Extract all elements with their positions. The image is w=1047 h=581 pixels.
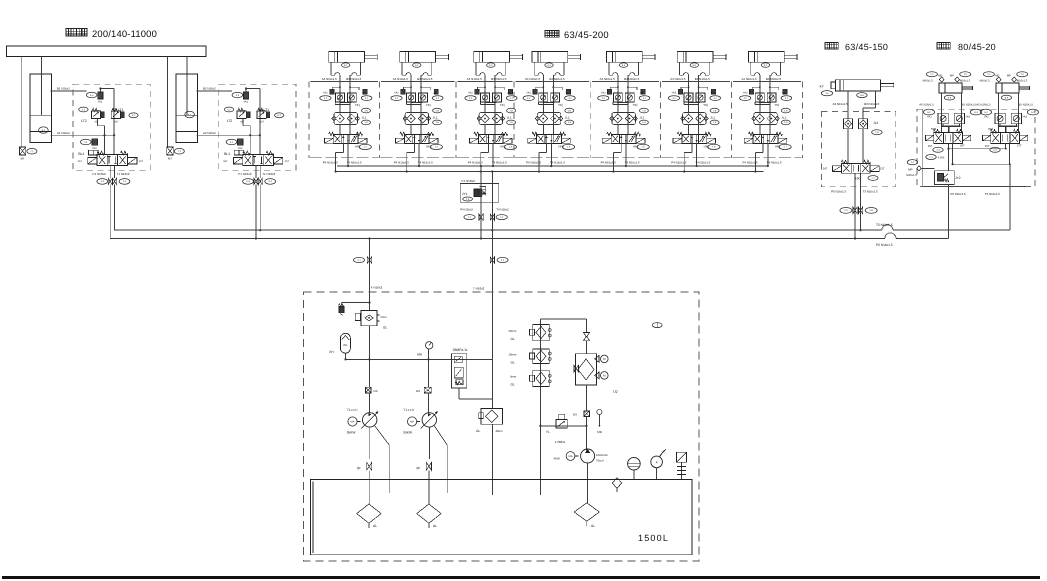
- svg-text:A3 N16x1.5: A3 N16x1.5: [833, 102, 848, 106]
- pilot check cartridges unit 7: [755, 93, 776, 105]
- svg-text:63/45-150: 63/45-150: [845, 42, 888, 52]
- svg-text:GL: GL: [383, 326, 387, 330]
- wire P4/T4 drops unit 5: [601, 143, 640, 173]
- svg-text:T4 N16x1.5: T4 N16x1.5: [625, 160, 640, 164]
- svg-text:P5 N16x1.5: P5 N16x1.5: [876, 243, 893, 247]
- cylinder YS1: [22, 56, 52, 146]
- thermometer: [651, 450, 666, 480]
- svg-text:T4 N16x1.5: T4 N16x1.5: [767, 160, 782, 164]
- throttle check JL1 unit 7: [752, 113, 791, 135]
- slope tag 4.5%: [926, 155, 945, 160]
- svg-text:YK|: YK|: [500, 103, 505, 107]
- svg-text:MP: MP: [908, 168, 913, 172]
- wire P4 manifold: [337, 165, 769, 167]
- pilot check cartridges unit 3: [480, 93, 501, 105]
- svg-text:4KW: 4KW: [553, 457, 560, 461]
- svg-text:B4 N10x1.5: B4 N10x1.5: [695, 77, 710, 81]
- svg-text:JL1: JL1: [710, 115, 715, 119]
- pilot check cartridges unit 4: [539, 93, 560, 105]
- svg-text:A4 N10x1.5: A4 N10x1.5: [393, 77, 408, 81]
- svg-text:QF: QF: [416, 466, 420, 470]
- cylinder KY 63/45-150: [820, 80, 894, 96]
- border rule: [2, 576, 1040, 579]
- svg-text:B3 N16x1.5: B3 N16x1.5: [864, 102, 879, 106]
- lock1 couplers MD/MP: [923, 72, 971, 83]
- cylinder YS2: [167, 56, 197, 146]
- wire A4/B4 unit 7: [740, 75, 792, 134]
- svg-text:YA3: YA3: [1022, 116, 1027, 119]
- coupler MP: [906, 160, 934, 178]
- svg-text:T4 N16x2: T4 N16x2: [496, 207, 509, 211]
- labels lock section P5 T5: [950, 192, 1000, 196]
- svg-text:M16x1.5: M16x1.5: [980, 79, 991, 82]
- svg-text:T5 N16x1.5: T5 N16x1.5: [985, 192, 1000, 196]
- wire F inside: [368, 302, 370, 311]
- throttle check JL1 unit 4: [535, 113, 574, 135]
- svg-text:A5 N16x1.5: A5 N16x1.5: [976, 103, 991, 107]
- svg-text:26T: 26T: [985, 145, 990, 148]
- shutoff valves 63/45-150: [840, 207, 877, 214]
- wire P1 drop: [109, 185, 111, 239]
- svg-text:YK|: YK|: [703, 103, 708, 107]
- pressure switch YK unit 6: [703, 103, 719, 113]
- svg-text:YA2: YA2: [468, 91, 473, 94]
- lock2 cylinder 80/45: [976, 83, 1033, 107]
- svg-text:YA1: YA1: [507, 92, 512, 95]
- label P4 manifold: [462, 179, 476, 183]
- L2 valve BL1: [224, 150, 244, 155]
- throttle check JL1 unit 2: [403, 113, 442, 135]
- cylinder YG1: [329, 52, 378, 68]
- svg-text:YA1: YA1: [711, 92, 716, 95]
- svg-text:4: 4: [656, 461, 658, 465]
- accumulator XH 20L: [329, 333, 350, 360]
- svg-text:P4 N16x1.5: P4 N16x1.5: [394, 160, 409, 164]
- svg-text:YA2: YA2: [92, 147, 97, 150]
- svg-text:T4 N16x1.5: T4 N16x1.5: [695, 160, 710, 164]
- svg-text:27T: 27T: [1017, 145, 1022, 148]
- svg-text:YA1: YA1: [362, 92, 367, 95]
- title jack cylinder 63/45-150: [825, 42, 888, 52]
- wire F filter to header: [368, 326, 370, 360]
- svg-text:BL1: BL1: [224, 152, 230, 156]
- svg-text:JL1: JL1: [433, 115, 438, 119]
- svg-text:P4 N16x1.5: P4 N16x1.5: [323, 160, 338, 164]
- wire P4/T4 drops unit 6: [671, 143, 710, 173]
- svg-text:P4 N16x2: P4 N16x2: [462, 179, 476, 183]
- svg-text:T4 N16x1.5: T4 N16x1.5: [550, 160, 565, 164]
- svg-text:M16x1.5: M16x1.5: [923, 79, 934, 82]
- svg-text:A4 N10x1.5: A4 N10x1.5: [467, 77, 482, 81]
- directional valve HF1 unit 6: [673, 132, 720, 149]
- svg-text:M16x1.5: M16x1.5: [1017, 79, 1028, 82]
- ball valve QF1: [357, 462, 372, 504]
- wire P4/T4 drops unit 7: [743, 143, 782, 173]
- pilot check cartridges unit 6: [684, 93, 705, 105]
- svg-text:LT1: LT1: [118, 108, 124, 112]
- svg-text:B2 N16x2: B2 N16x2: [203, 87, 216, 91]
- block JY1: [460, 184, 499, 203]
- oval tag cylinder YS2: [185, 111, 195, 117]
- lock1 cylinder 80/45: [919, 83, 976, 107]
- svg-text:YK|: YK|: [633, 103, 638, 107]
- svg-text:YA1: YA1: [243, 100, 248, 103]
- label A4/B4 unit 2: [393, 77, 433, 81]
- wire P5 bus: [110, 184, 949, 238]
- wire circulation bottom run: [539, 416, 600, 450]
- suction line pump 1: [369, 427, 371, 459]
- circulation filter 20mm: [509, 324, 552, 340]
- L1 shutoff valves P/T: [97, 166, 130, 185]
- svg-text:71cc/r: 71cc/r: [347, 408, 359, 412]
- svg-text:GL: GL: [433, 524, 437, 528]
- wire P2 drop: [255, 185, 257, 240]
- svg-text:80/45-20: 80/45-20: [958, 42, 996, 52]
- svg-text:A4 N10x1.5: A4 N10x1.5: [670, 77, 685, 81]
- beam: [7, 46, 206, 56]
- hose pair unit 1: [331, 62, 361, 75]
- svg-text:YA2: YA2: [323, 91, 328, 94]
- label A4/B4 unit 3: [467, 77, 507, 81]
- hose pair unit 3: [476, 62, 506, 75]
- svg-text:XH: XH: [329, 350, 334, 354]
- temp sensor MB: [597, 409, 602, 434]
- throttle check JL1 unit 1: [332, 113, 371, 135]
- svg-text:B5 N16x1.5: B5 N16x1.5: [1019, 103, 1034, 107]
- suction strainer GL2: [417, 504, 441, 528]
- suction line pump 2: [428, 427, 430, 459]
- svg-text:P4 N16x1.5: P4 N16x1.5: [526, 160, 541, 164]
- svg-text:B5 N16x1.5: B5 N16x1.5: [962, 103, 977, 107]
- directional valve HF1 unit 1: [324, 132, 371, 149]
- svg-text:MA: MA: [569, 455, 573, 458]
- wire P riser into JY2: [948, 149, 950, 171]
- shutoff valve F line: [354, 257, 372, 263]
- svg-text:55KW: 55KW: [403, 431, 412, 435]
- svg-text:45T: 45T: [94, 121, 99, 124]
- wire T5 bus: [114, 164, 1010, 230]
- L2 shutoff valves P/T: [243, 166, 276, 185]
- svg-text:YA2: YA2: [672, 91, 677, 94]
- svg-text:JL1: JL1: [565, 115, 570, 119]
- cylinder YG6: [677, 52, 726, 68]
- shutoff valve pair below JY1: [464, 214, 507, 220]
- throttle check JL1 unit 6: [681, 113, 720, 135]
- wire A3: [833, 91, 848, 119]
- label T5 bus: [876, 223, 893, 227]
- svg-text:M16x1.5: M16x1.5: [906, 174, 917, 177]
- throttle check JL1 unit 5: [610, 113, 649, 135]
- svg-text:YA2: YA2: [394, 91, 399, 94]
- svg-text:YA1: YA1: [782, 92, 787, 95]
- svg-text:15T: 15T: [139, 160, 144, 163]
- svg-text:YA1: YA1: [98, 100, 103, 103]
- lock2 wire P/T stubs: [1006, 144, 1010, 165]
- svg-text:71cc/r: 71cc/r: [403, 408, 415, 412]
- svg-text:55KW: 55KW: [347, 431, 356, 435]
- svg-text:YA2: YA2: [927, 116, 932, 119]
- svg-text:MB: MB: [597, 430, 602, 434]
- svg-text:YA2: YA2: [743, 91, 748, 94]
- svg-text:GL: GL: [476, 429, 480, 433]
- high pressure filter GL: [355, 310, 387, 329]
- svg-text:40um: 40um: [496, 429, 504, 433]
- hose pair unit 7: [751, 62, 781, 75]
- L2 solenoid cartridge A: [226, 139, 243, 150]
- svg-text:DX: DX: [374, 389, 378, 393]
- pilot check cartridges unit 2: [406, 93, 427, 105]
- svg-text:T5 N16x1.5: T5 N16x1.5: [876, 223, 893, 227]
- svg-text:GL: GL: [511, 361, 515, 365]
- wire T riser 63/45-150: [859, 173, 861, 231]
- svg-text:YL: YL: [546, 430, 550, 434]
- circulation filter 5mm: [510, 370, 551, 386]
- svg-text:DX: DX: [573, 412, 577, 416]
- svg-text:GL: GL: [591, 524, 595, 528]
- test point MT2: [167, 147, 185, 161]
- svg-text:JL1: JL1: [781, 115, 786, 119]
- svg-text:MT: MT: [21, 157, 25, 161]
- L2 counterbalance valves LT1 LT2: [224, 107, 283, 154]
- level switch: [677, 452, 687, 479]
- valve block 63/45-150: [821, 112, 895, 194]
- svg-text:T1 N16x2: T1 N16x2: [262, 172, 275, 176]
- L1 valve block enclosure: [73, 84, 150, 170]
- svg-text:MP: MP: [1007, 75, 1011, 78]
- wire B3: [863, 91, 880, 119]
- throttle check JL1 unit 3: [477, 113, 515, 135]
- svg-text:P4 N16x1.5: P4 N16x1.5: [743, 160, 758, 164]
- oil tank 1500L: [310, 479, 692, 554]
- hose pair unit 6: [680, 62, 710, 75]
- pump 1 drain: [375, 426, 390, 493]
- label A4/B4 unit 4: [525, 77, 565, 81]
- svg-text:A4 N10x1.5: A4 N10x1.5: [322, 77, 337, 81]
- svg-text:T4 N16x1.5: T4 N16x1.5: [347, 160, 362, 164]
- label A4/B4 unit 7: [742, 77, 782, 81]
- svg-text:A5 N16x1.5: A5 N16x1.5: [919, 103, 934, 107]
- lock1 wire A6/B6: [923, 93, 981, 133]
- test point MT1: [19, 147, 37, 161]
- label A4/B4 unit 6: [670, 77, 710, 81]
- wire A4/B4 unit 6: [668, 75, 720, 134]
- oval tag cylinder KY: [857, 93, 867, 98]
- svg-text:A4 N10x1.5: A4 N10x1.5: [742, 77, 757, 81]
- svg-text:JL1: JL1: [362, 115, 367, 119]
- pressure switch YK unit 5: [633, 103, 649, 113]
- svg-text:YA1: YA1: [565, 92, 570, 95]
- svg-text:20mm: 20mm: [509, 329, 517, 333]
- svg-text:YA2: YA2: [526, 91, 531, 94]
- lock2 pilot check cartridges: [984, 113, 1028, 132]
- wire B2: [197, 87, 232, 91]
- svg-text:10mm: 10mm: [509, 353, 517, 357]
- title clamp cylinders 63/45-200: [545, 29, 609, 40]
- pressure switch YK unit 2: [426, 103, 442, 113]
- svg-text:P4 N16x1.5: P4 N16x1.5: [671, 160, 686, 164]
- wire JY1 P riser: [480, 165, 482, 240]
- svg-text:200/140-11000: 200/140-11000: [92, 28, 157, 39]
- directional valve HF1 unit 5: [602, 132, 649, 149]
- cylinder YG3: [474, 52, 523, 68]
- wire T header lock section: [947, 148, 1006, 150]
- L2 directional valve 4/3: [223, 151, 289, 176]
- pilot check cartridges unit 1: [335, 93, 356, 105]
- directional valve HF1 unit 2: [396, 132, 443, 149]
- svg-text:T4 N16x1.5: T4 N16x1.5: [418, 160, 433, 164]
- svg-text:16T: 16T: [78, 160, 83, 163]
- svg-text:B4 N10x1.5: B4 N10x1.5: [766, 77, 781, 81]
- level gauge: [628, 457, 641, 479]
- filter stack line: [539, 319, 541, 495]
- pilot check cartridges unit 5: [613, 93, 634, 105]
- label F line: [0, 0, 1, 1]
- svg-text:YA3: YA3: [965, 116, 970, 119]
- wire P4/T4 drops unit 1: [323, 143, 362, 173]
- wire P riser 63/45-150: [854, 173, 856, 239]
- pump 2 71cc/r: [403, 408, 437, 435]
- L1 solenoid cartridge A: [81, 139, 98, 150]
- svg-text:76cc/r: 76cc/r: [596, 459, 604, 463]
- svg-text:JL1: JL1: [507, 115, 512, 119]
- L1 solenoid cartridge B: [86, 87, 114, 154]
- label A4/B4 unit 5: [600, 77, 640, 81]
- title lifting cylinders 200/140-11000: [66, 28, 157, 39]
- check valve DX1: [365, 387, 377, 393]
- svg-text:15T: 15T: [285, 160, 290, 163]
- svg-text:45T: 45T: [260, 121, 265, 124]
- wire cooler top run: [540, 319, 586, 333]
- cylinder YG5: [607, 52, 656, 68]
- svg-text:M16x1.5: M16x1.5: [960, 79, 971, 82]
- suction strainer GL3: [574, 503, 599, 528]
- svg-text:MT: MT: [168, 157, 172, 161]
- cylinder YG7: [749, 52, 798, 68]
- svg-text:T3 N16x1.5: T3 N16x1.5: [863, 190, 878, 194]
- wire A4/B4 unit 5: [598, 75, 650, 134]
- check valve DX3: [573, 411, 589, 416]
- svg-text:A4 N10x1.5: A4 N10x1.5: [525, 77, 540, 81]
- svg-text:A1 N16x2: A1 N16x2: [57, 131, 70, 135]
- relief manifold 33MPa 1L: [452, 348, 493, 399]
- lock1 directional valve H1x: [926, 129, 971, 152]
- svg-text:JL1: JL1: [639, 115, 644, 119]
- breather: [612, 478, 621, 493]
- svg-text:4.5%: 4.5%: [938, 156, 945, 160]
- svg-text:F N16x2: F N16x2: [371, 286, 383, 290]
- svg-text:LQ: LQ: [613, 390, 618, 394]
- svg-text:P5 N16x1.5: P5 N16x1.5: [950, 192, 965, 196]
- wire P4/T4 drops unit 3: [468, 143, 507, 173]
- svg-text:MP: MP: [950, 75, 954, 78]
- lock section frame: [917, 109, 1035, 186]
- L2 solenoid cartridge B: [232, 87, 260, 154]
- shutoff valve T line: [473, 257, 508, 291]
- return filter GL 40um: [476, 409, 503, 495]
- pressure switch YK unit 4: [558, 103, 574, 113]
- svg-text:P4 N16x1.5: P4 N16x1.5: [601, 160, 616, 164]
- hose pair unit 4: [534, 62, 564, 75]
- wire B1: [51, 87, 87, 91]
- lock2 couplers MD/MP: [980, 72, 1028, 83]
- wire T1 drop: [114, 185, 116, 231]
- svg-text:T4 N16x1.5: T4 N16x1.5: [492, 160, 507, 164]
- svg-text:26T: 26T: [960, 145, 965, 148]
- circulation pump 100L/min: [553, 449, 608, 503]
- svg-text:MA: MA: [351, 421, 355, 424]
- svg-text:B4 N10x1.5: B4 N10x1.5: [550, 77, 565, 81]
- svg-text:YA2: YA2: [238, 147, 243, 150]
- wire T riser to tank: [491, 170, 493, 408]
- svg-text:GL: GL: [511, 383, 515, 387]
- wire A4/B4 unit 1: [320, 75, 372, 134]
- svg-text:100L/min: 100L/min: [596, 453, 608, 457]
- svg-text:LT1: LT1: [264, 108, 270, 112]
- svg-text:P1 N16x2: P1 N16x2: [238, 172, 252, 176]
- wire P header: [346, 358, 493, 360]
- wire pump2 riser: [428, 359, 430, 412]
- wire T2 drop: [259, 185, 261, 232]
- pump 2 drain: [434, 426, 447, 493]
- svg-text:1500L: 1500L: [638, 533, 669, 543]
- hose pair unit 2: [402, 62, 432, 75]
- svg-text:BL1: BL1: [78, 152, 84, 156]
- wire P4/T4 drops unit 2: [394, 143, 433, 173]
- svg-text:25T: 25T: [928, 145, 933, 148]
- wire P header lock section: [952, 163, 1011, 165]
- svg-text:LT2: LT2: [227, 119, 233, 123]
- svg-text:P4 N16x2: P4 N16x2: [460, 207, 473, 211]
- svg-text:45T: 45T: [240, 121, 245, 124]
- pump 1 71cc/r: [347, 408, 379, 435]
- label A4/B4 unit 1: [322, 77, 362, 81]
- svg-text:T N16x2: T N16x2: [473, 287, 485, 291]
- wire pump1 riser: [369, 359, 371, 412]
- svg-text:5mm: 5mm: [510, 375, 517, 379]
- lock1 pilot check cartridges: [927, 113, 971, 132]
- svg-text:1.3MPa: 1.3MPa: [555, 440, 566, 444]
- cylinder YG2: [400, 52, 449, 68]
- L2 valve block enclosure: [219, 84, 296, 170]
- svg-text:5mm: 5mm: [381, 316, 388, 319]
- wire A1: [51, 131, 115, 135]
- lock2 wire A6/B6: [980, 93, 1038, 133]
- directional valve HF1 unit 7: [744, 132, 791, 149]
- svg-text:DX: DX: [416, 389, 420, 393]
- wire F feed line: [368, 237, 382, 302]
- L1 directional valve 4/3: [78, 151, 144, 176]
- L1 counterbalance valves LT1 LT2: [79, 107, 138, 154]
- svg-text:YK|: YK|: [775, 103, 780, 107]
- relief valve small top-left: [339, 303, 370, 316]
- directional valve HF1 unit 3: [470, 132, 517, 149]
- svg-text:YA1: YA1: [433, 92, 438, 95]
- labels below JY1: [460, 207, 509, 211]
- svg-text:B4 N10x1.5: B4 N10x1.5: [491, 77, 506, 81]
- svg-text:YA2: YA2: [984, 116, 989, 119]
- wire A4/B4 unit 3: [465, 75, 517, 134]
- svg-text:24T: 24T: [823, 168, 828, 171]
- svg-text:P5 N16x1.5: P5 N16x1.5: [831, 190, 846, 194]
- svg-text:JL2: JL2: [873, 121, 878, 125]
- breather pill top: [652, 323, 662, 328]
- svg-text:YK|: YK|: [355, 103, 360, 107]
- ball valve QF2: [416, 462, 431, 504]
- svg-text:63/45-200: 63/45-200: [564, 29, 609, 40]
- svg-text:YK|: YK|: [558, 103, 563, 107]
- directional valve HF1 unit 4: [528, 132, 575, 149]
- L1 valve BL1: [78, 150, 98, 155]
